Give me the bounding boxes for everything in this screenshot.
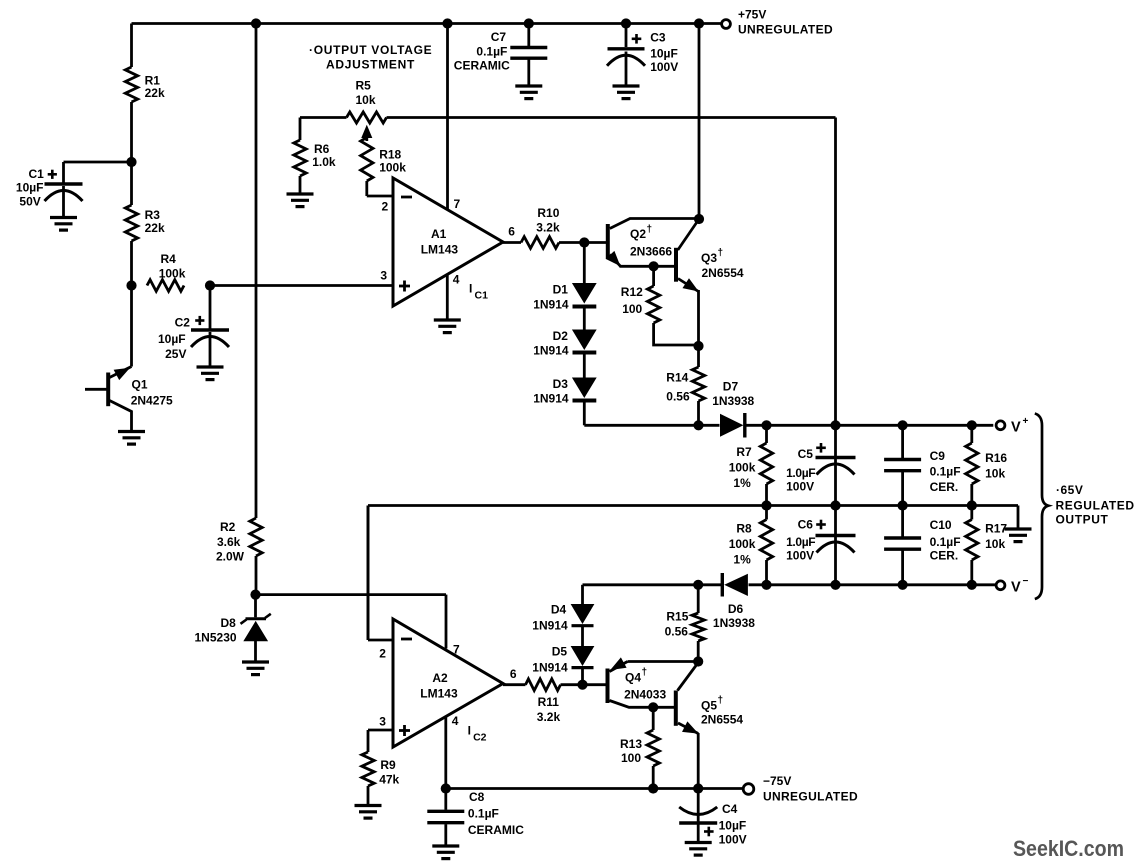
wire mid rail (368, 506, 1018, 641)
svg-text:3.2k: 3.2k (537, 710, 561, 724)
svg-text:A1: A1 (431, 227, 447, 241)
svg-text:2: 2 (379, 647, 386, 661)
node V- C6 (830, 580, 840, 590)
svg-text:1N5230: 1N5230 (195, 631, 237, 645)
svg-text:ADJUSTMENT: ADJUSTMENT (326, 58, 415, 72)
svg-text:D4: D4 (551, 603, 567, 617)
svg-text:100k: 100k (729, 537, 756, 551)
svg-text:Q2: Q2 (630, 227, 646, 241)
diode D1 (533, 243, 596, 331)
diode D5 (532, 645, 593, 685)
pin 4 A1 (447, 273, 460, 320)
transistor Q5 (653, 664, 743, 789)
resistor R11 (526, 679, 561, 724)
svg-text:3.2k: 3.2k (536, 221, 560, 235)
svg-text:Q3: Q3 (701, 251, 717, 265)
svg-text:1.0µF: 1.0µF (786, 535, 815, 549)
terminal V- (996, 576, 1028, 596)
svg-text:D2: D2 (553, 329, 569, 343)
capacitor C4 (679, 789, 746, 847)
capacitor C6 (786, 506, 855, 585)
wire left vertical rail (130, 24, 133, 367)
diode D7 (712, 380, 766, 438)
resistor R15 (665, 585, 705, 662)
svg-text:2N3666: 2N3666 (630, 245, 672, 259)
svg-text:6: 6 (510, 667, 517, 681)
svg-text:Q5: Q5 (701, 699, 717, 713)
wire feedback top (300, 118, 836, 426)
svg-text:†: † (647, 224, 653, 235)
transistor Q4 (583, 658, 699, 707)
svg-text:50V: 50V (19, 195, 40, 209)
resistor R7 (729, 425, 773, 505)
svg-text:R16: R16 (985, 451, 1007, 465)
svg-text:R12: R12 (621, 285, 643, 299)
node C1 junction (126, 157, 136, 167)
resistor R14 (666, 346, 704, 425)
resistor R9 (362, 752, 400, 805)
svg-text:0.56: 0.56 (665, 625, 689, 639)
svg-text:R14: R14 (666, 371, 688, 385)
ground C1 (50, 218, 77, 231)
node C4 junction (693, 783, 703, 793)
pin 3 label A1 (380, 269, 387, 283)
svg-text:3.6k: 3.6k (217, 535, 241, 549)
svg-text:CER.: CER. (930, 549, 959, 563)
resistor R17 (966, 506, 1008, 585)
wire +75V top rail (132, 22, 721, 25)
pin 6 label A2 (510, 667, 517, 681)
resistor R2 (216, 518, 262, 564)
node V+ R7 (761, 420, 771, 430)
pin 6 label A1 (508, 225, 515, 239)
svg-text:R9: R9 (380, 758, 396, 772)
capacitor C7 (454, 24, 548, 86)
svg-text:LM143: LM143 (420, 687, 458, 701)
resistor R8 (729, 506, 773, 585)
terminal V+ (996, 416, 1028, 436)
terminal -75V (743, 774, 858, 804)
node R4 right junction (205, 280, 215, 290)
svg-text:22k: 22k (145, 86, 165, 100)
svg-text:CERAMIC: CERAMIC (468, 823, 524, 837)
svg-text:1%: 1% (733, 476, 751, 490)
svg-text:7: 7 (454, 197, 461, 211)
ground C4 (685, 843, 712, 856)
resistor R16 (966, 425, 1008, 505)
svg-text:D8: D8 (221, 616, 237, 630)
node Q2Q3 collector junction (694, 214, 704, 224)
svg-text:·OUTPUT VOLTAGE: ·OUTPUT VOLTAGE (309, 43, 432, 57)
node R2 D8 junction (250, 590, 260, 600)
resistor R3 (125, 205, 165, 241)
svg-text:C3: C3 (650, 31, 666, 45)
node Q4 collector junction (648, 702, 658, 712)
capacitor C2 (158, 286, 229, 367)
svg-text:1%: 1% (733, 553, 751, 567)
svg-text:10µF: 10µF (719, 819, 747, 833)
svg-text:CER.: CER. (930, 480, 959, 494)
node V- R8 (761, 580, 771, 590)
svg-text:I: I (469, 282, 472, 296)
svg-text:4: 4 (452, 714, 459, 728)
wire R10 to Q2 (559, 241, 606, 244)
wire A2 pin2 feedback (367, 506, 370, 641)
node top-rail Q2Q3 junction (694, 18, 704, 28)
wire R11 to D5 node (561, 683, 583, 686)
node V- R17 (967, 580, 977, 590)
node R15 Q4 emitter junction (693, 656, 703, 666)
svg-text:2N4275: 2N4275 (131, 394, 173, 408)
svg-text:10µF: 10µF (16, 181, 44, 195)
svg-text:V: V (1011, 420, 1021, 436)
svg-text:C7: C7 (491, 30, 507, 44)
svg-text:†: † (642, 667, 648, 678)
node C8 junction (441, 783, 451, 793)
wire D3 to D7 (584, 424, 719, 427)
svg-text:LM143: LM143 (421, 243, 459, 257)
wire -75V rail (446, 787, 743, 790)
svg-text:1N914: 1N914 (533, 344, 569, 358)
diode D2 (533, 329, 596, 378)
svg-text:REGULATED: REGULATED (1056, 499, 1134, 513)
svg-text:100V: 100V (786, 480, 814, 494)
svg-text:OUTPUT: OUTPUT (1056, 513, 1109, 527)
wire R4 to pin3 (210, 284, 393, 287)
svg-text:1.0µF: 1.0µF (786, 466, 815, 480)
wire A2 out (503, 683, 526, 686)
wire R2 to A2 pin7 (256, 595, 447, 649)
potentiometer R5 (347, 79, 387, 142)
ground C7 (515, 86, 542, 99)
svg-text:R13: R13 (620, 737, 642, 751)
svg-text:C1: C1 (475, 290, 489, 302)
svg-text:2N4033: 2N4033 (624, 688, 666, 702)
wire V- to D4 (581, 585, 584, 605)
op-amp A1 (393, 178, 503, 306)
svg-text:100: 100 (622, 302, 642, 316)
svg-text:R10: R10 (537, 206, 559, 220)
svg-text:1N914: 1N914 (533, 298, 569, 312)
transistor Q1 (85, 367, 173, 432)
svg-text:100: 100 (621, 751, 641, 765)
pin 4 A2 (446, 714, 459, 789)
svg-text:CERAMIC: CERAMIC (454, 59, 510, 73)
svg-text:3: 3 (380, 269, 387, 283)
ground C3 (613, 86, 640, 99)
node R4 left junction (126, 280, 136, 290)
brace output (1035, 414, 1048, 600)
ground A1 pin4 (434, 320, 461, 333)
svg-text:C4: C4 (722, 802, 738, 816)
svg-text:Q1: Q1 (132, 378, 148, 392)
ground C8 (432, 846, 459, 859)
svg-text:7: 7 (453, 643, 460, 657)
node V+ R16 (967, 420, 977, 430)
resistor R13 (620, 707, 659, 788)
svg-text:C6: C6 (798, 518, 814, 532)
node mid C9C10 (898, 500, 908, 510)
svg-text:1N914: 1N914 (532, 661, 568, 675)
capacitor C10 (884, 506, 960, 585)
svg-text:−: − (1023, 576, 1029, 587)
svg-text:R17: R17 (985, 522, 1007, 536)
node mid R7R8 (761, 500, 771, 510)
node D5 R11 Q4 junction (577, 680, 587, 690)
ground C2 (197, 367, 224, 380)
svg-text:†: † (718, 695, 724, 706)
svg-text:10k: 10k (356, 93, 376, 107)
label output voltage adjustment (309, 43, 432, 72)
wire +75 to Q2Q3 collectors (698, 24, 701, 220)
svg-text:47k: 47k (379, 773, 399, 787)
svg-text:†: † (718, 248, 724, 259)
svg-text:R6: R6 (314, 142, 330, 156)
pin 3 A2 (368, 715, 393, 753)
svg-text:10µF: 10µF (650, 47, 678, 61)
wire mid to ground (1017, 506, 1020, 529)
svg-text:C5: C5 (798, 447, 814, 461)
svg-text:0.1µF: 0.1µF (468, 807, 499, 821)
pin 7 A1 (448, 24, 461, 212)
capacitor C9 (884, 425, 960, 505)
resistor R1 (125, 67, 165, 102)
node top-rail R2 junction (251, 18, 261, 28)
svg-text:C8: C8 (469, 790, 485, 804)
ground R9 (355, 806, 382, 819)
resistor R12 (621, 266, 699, 345)
diode D4 (532, 603, 593, 647)
svg-text:10k: 10k (985, 467, 1005, 481)
svg-text:C2: C2 (473, 732, 487, 744)
svg-text:100V: 100V (650, 60, 678, 74)
svg-text:+75V: +75V (738, 8, 766, 22)
node Q2 emitter junction (649, 261, 659, 271)
diode D3 (533, 377, 596, 425)
svg-text:0.1µF: 0.1µF (930, 535, 961, 549)
svg-text:−75V: −75V (763, 774, 791, 788)
svg-text:C10: C10 (930, 518, 952, 532)
svg-text:R15: R15 (666, 610, 688, 624)
node top-rail pin7 junction (442, 18, 452, 28)
svg-text:UNREGULATED: UNREGULATED (738, 23, 833, 37)
node V- R15 (693, 580, 703, 590)
svg-text:C1: C1 (29, 167, 45, 181)
svg-text:0.56: 0.56 (666, 390, 690, 404)
label IC2 (468, 724, 487, 744)
terminal +75V (722, 8, 833, 37)
svg-text:6: 6 (508, 225, 515, 239)
svg-text:2.0W: 2.0W (216, 550, 245, 564)
svg-text:Q4: Q4 (625, 671, 641, 685)
node V+ C5 (830, 420, 840, 430)
svg-text:4: 4 (453, 273, 460, 287)
svg-text:2N6554: 2N6554 (701, 713, 743, 727)
svg-text:22k: 22k (145, 221, 165, 235)
svg-text:·65V: ·65V (1056, 483, 1083, 497)
watermark SeekIC.com (1013, 836, 1124, 861)
svg-text:C2: C2 (175, 316, 191, 330)
svg-text:25V: 25V (165, 347, 186, 361)
svg-text:V: V (1011, 580, 1021, 596)
ground R6 (287, 194, 314, 207)
capacitor C8 (427, 789, 524, 846)
svg-text:R2: R2 (220, 520, 236, 534)
op-amp A2 (393, 619, 503, 747)
capacitor C5 (786, 425, 855, 505)
svg-text:C9: C9 (930, 449, 946, 463)
wire A1 out (503, 241, 521, 244)
node R12 Q3 emitter junction (693, 341, 703, 351)
svg-text:R11: R11 (538, 695, 560, 709)
svg-text:D3: D3 (553, 377, 569, 391)
svg-text:1N914: 1N914 (532, 619, 568, 633)
ground Q1 (118, 432, 145, 445)
svg-text:D5: D5 (552, 645, 568, 659)
svg-text:UNREGULATED: UNREGULATED (763, 790, 858, 804)
ground D8 (242, 662, 269, 675)
diode D6 (713, 573, 755, 630)
node A1 out junction (579, 237, 589, 247)
node V- C10 (898, 580, 908, 590)
svg-text:SeekIC.com: SeekIC.com (1013, 836, 1124, 861)
diode D8 zener (195, 595, 271, 662)
resistor R10 (521, 206, 560, 248)
svg-text:D6: D6 (728, 602, 744, 616)
svg-text:100V: 100V (719, 833, 747, 847)
transistor Q3 (654, 221, 744, 347)
svg-text:10µF: 10µF (158, 332, 186, 346)
svg-text:R18: R18 (379, 148, 401, 162)
resistor R4 (147, 252, 186, 291)
pin 2 label A2 (379, 647, 386, 661)
svg-text:R3: R3 (145, 208, 161, 222)
svg-text:R8: R8 (736, 522, 752, 536)
node V+ C9 (898, 420, 908, 430)
svg-text:+: + (1023, 416, 1029, 427)
svg-text:100V: 100V (786, 549, 814, 563)
svg-text:2: 2 (382, 200, 389, 214)
capacitor C3 (607, 24, 678, 86)
svg-text:D7: D7 (723, 380, 739, 394)
label IC1 (469, 282, 488, 302)
svg-text:1N3938: 1N3938 (713, 616, 755, 630)
svg-text:R7: R7 (736, 445, 752, 459)
resistor R18 (361, 138, 407, 197)
svg-text:0.1µF: 0.1µF (476, 45, 507, 59)
svg-text:2N6554: 2N6554 (702, 266, 744, 280)
transistor Q2 (607, 219, 698, 267)
svg-text:A2: A2 (432, 671, 448, 685)
svg-text:100k: 100k (379, 161, 406, 175)
wire R2 vertical (255, 24, 258, 595)
node mid R16R17 (967, 500, 977, 510)
node R13 bottom junction (648, 783, 658, 793)
svg-text:R4: R4 (161, 252, 177, 266)
svg-text:I: I (468, 724, 471, 738)
svg-text:0.1µF: 0.1µF (930, 465, 961, 479)
node top-rail C7 junction (524, 18, 534, 28)
wire V+ rail (767, 424, 994, 427)
ground output common (1005, 529, 1032, 542)
svg-text:3: 3 (379, 715, 386, 729)
capacitor C1 (16, 162, 132, 217)
svg-text:1.0k: 1.0k (312, 155, 336, 169)
resistor R6 (294, 118, 336, 194)
label 65V regulated output (1056, 483, 1134, 527)
node top-rail C3 junction (621, 18, 631, 28)
svg-text:100k: 100k (159, 267, 186, 281)
svg-text:10k: 10k (985, 537, 1005, 551)
wire V- rail (583, 583, 997, 586)
node mid C5C6 (830, 500, 840, 510)
svg-text:100k: 100k (729, 461, 756, 475)
svg-text:R5: R5 (356, 79, 372, 93)
pin 2 label A1 (382, 200, 389, 214)
svg-text:D1: D1 (553, 283, 569, 297)
svg-text:1N914: 1N914 (533, 392, 569, 406)
svg-text:1N3938: 1N3938 (712, 394, 754, 408)
pin 7 label A2 (453, 643, 460, 657)
node R14 bottom junction (693, 420, 703, 430)
